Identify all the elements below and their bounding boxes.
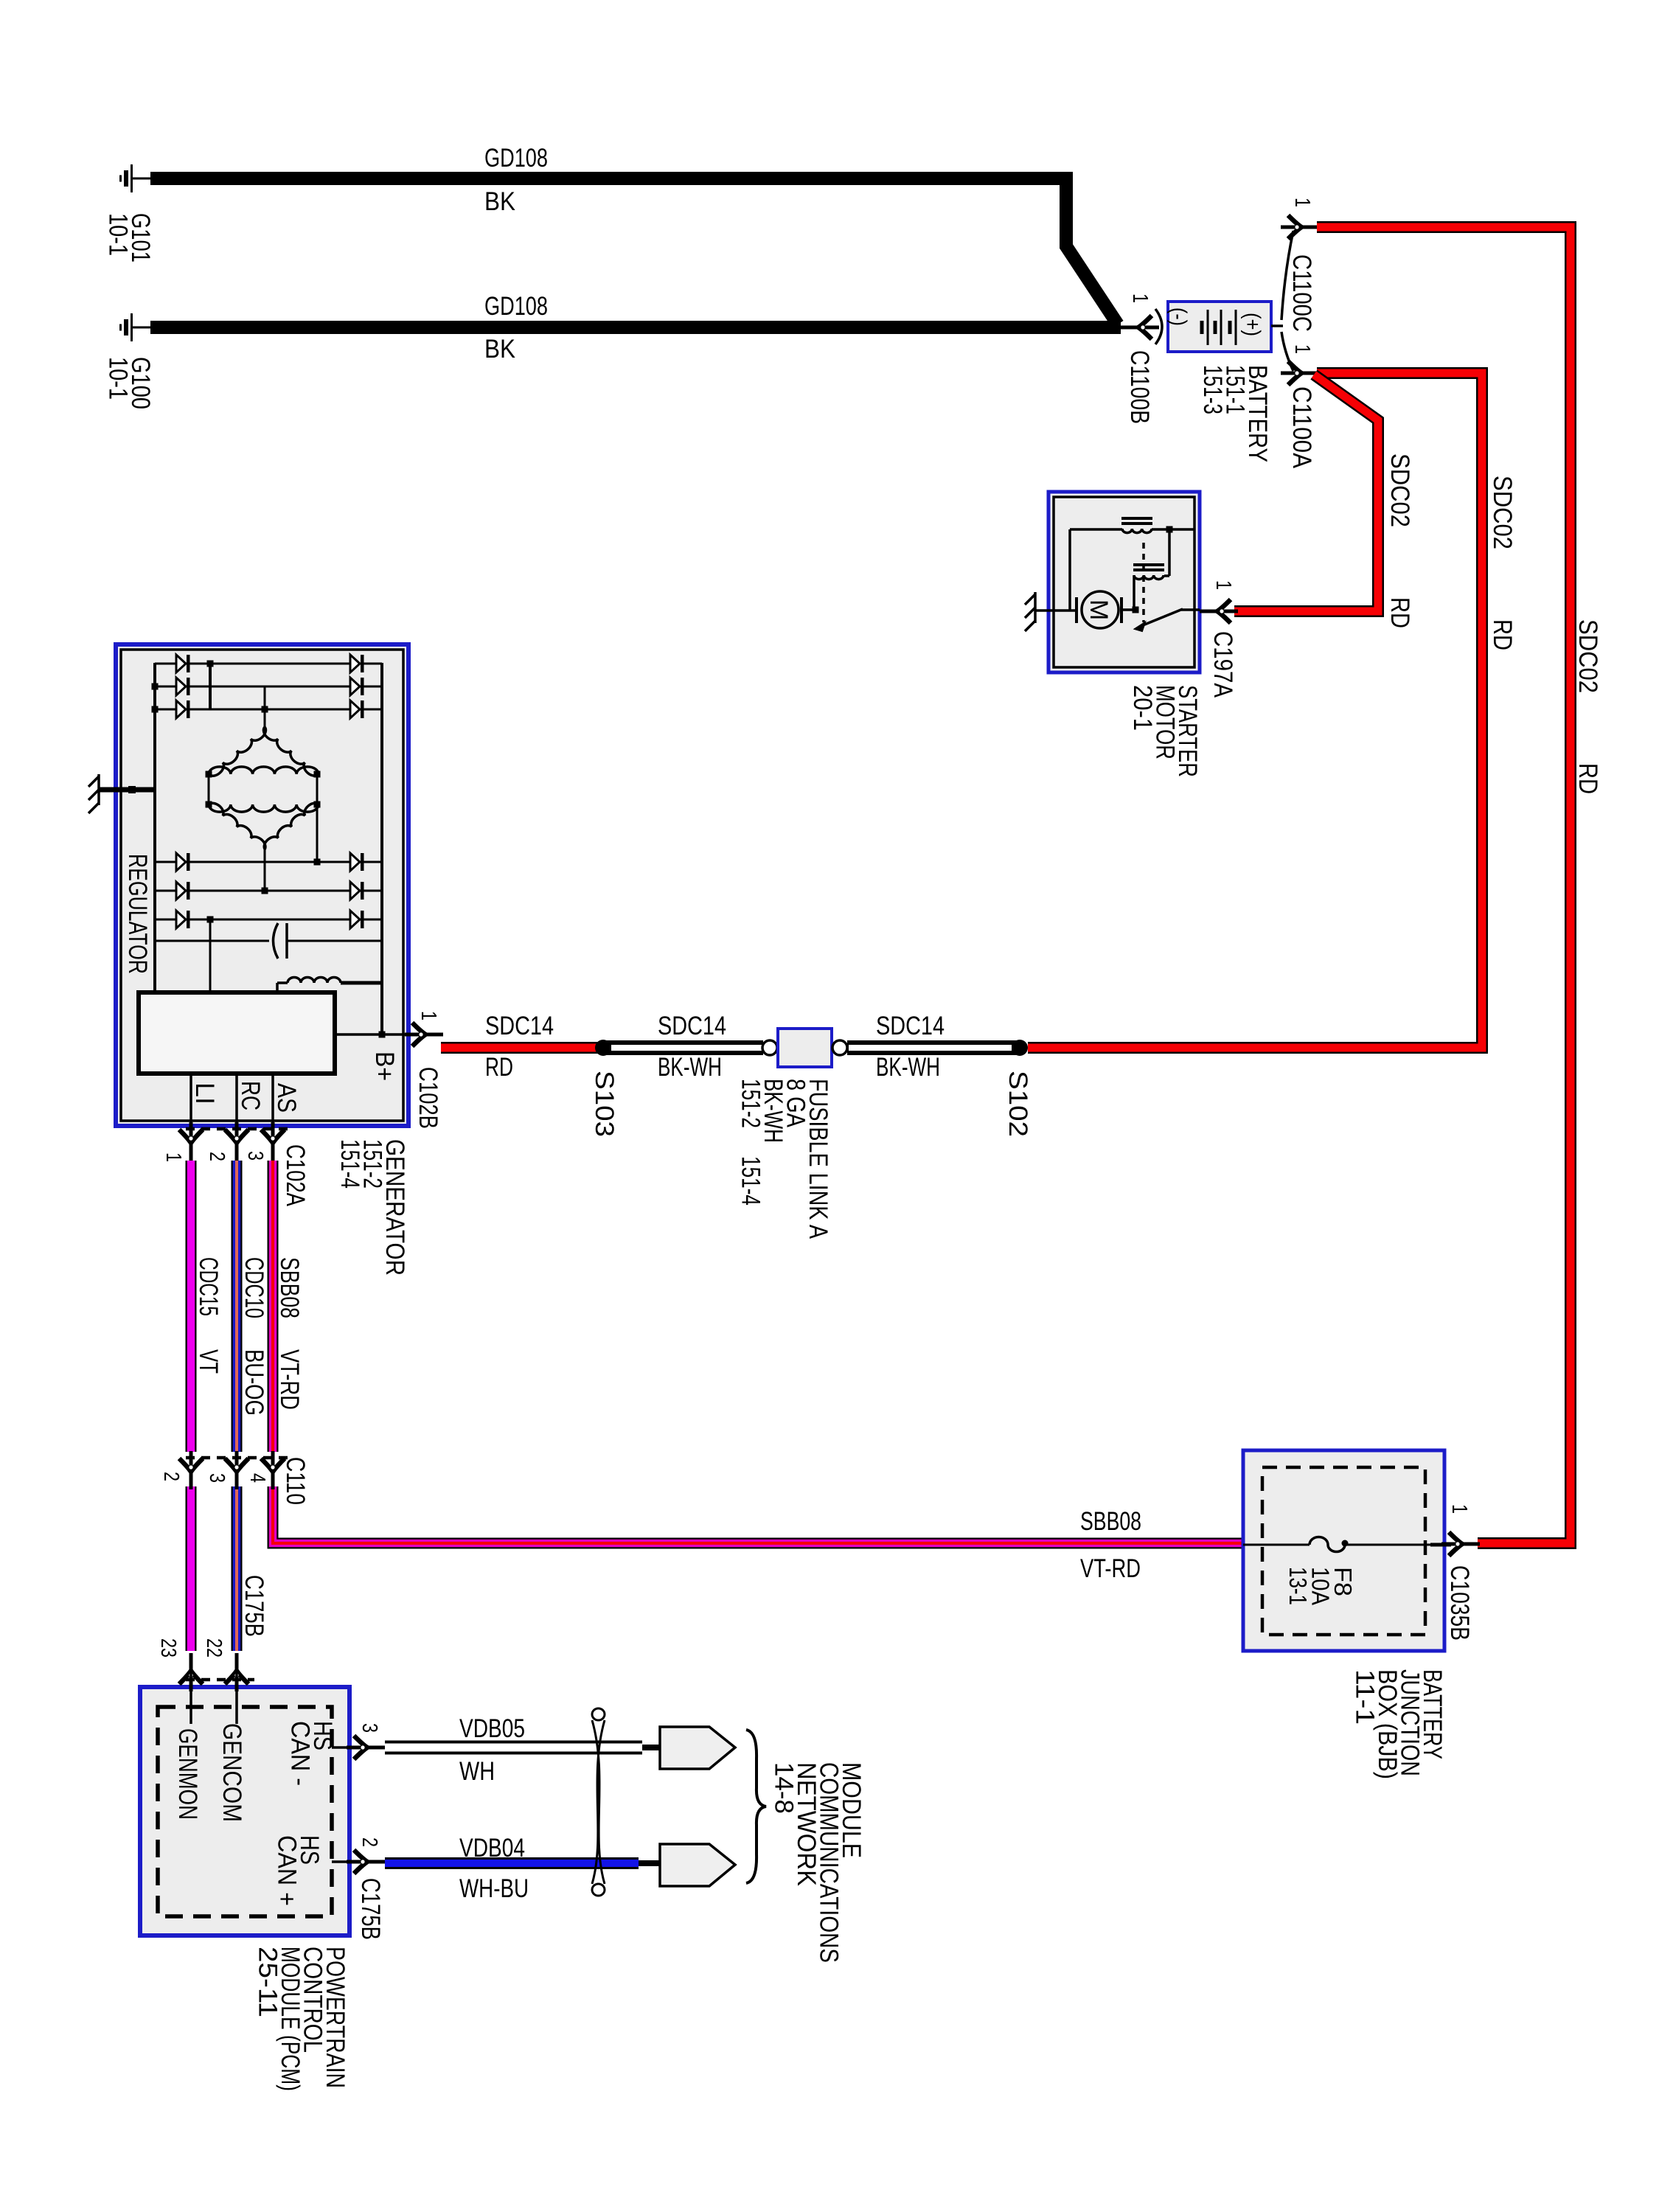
starter solenoid lower coil leads bbox=[1168, 529, 1171, 576]
regulator block bbox=[139, 992, 335, 1074]
svg-text:REGULATOR: REGULATOR bbox=[123, 854, 152, 974]
connector arrow PCM pin 3 bbox=[347, 1736, 385, 1759]
generator B+ output line bbox=[335, 1033, 414, 1036]
wire SBB08 VT-RD generator pin 3 to BJB bbox=[268, 1161, 279, 1452]
svg-text:CDC10: CDC10 bbox=[240, 1257, 268, 1318]
svg-text:GD108: GD108 bbox=[484, 292, 548, 321]
svg-text:RD: RD bbox=[1573, 763, 1602, 794]
svg-text:(-): (-) bbox=[1166, 307, 1191, 326]
svg-text:M: M bbox=[1085, 599, 1113, 620]
svg-text:C110: C110 bbox=[281, 1457, 310, 1505]
svg-text:GD108: GD108 bbox=[484, 144, 548, 173]
svg-text:1: 1 bbox=[1290, 198, 1314, 207]
generator box bbox=[116, 644, 408, 1126]
battery B box bbox=[1168, 302, 1271, 352]
svg-text:2: 2 bbox=[159, 1472, 183, 1481]
stator delta winding upper bbox=[263, 727, 318, 776]
svg-text:CDC15: CDC15 bbox=[194, 1257, 223, 1316]
rectifier diode rows bottom-right bbox=[350, 853, 364, 871]
svg-text:BK-WH: BK-WH bbox=[876, 1053, 940, 1082]
svg-text:S102: S102 bbox=[1004, 1071, 1032, 1137]
svg-text:VT-RD: VT-RD bbox=[275, 1349, 304, 1410]
svg-text:3: 3 bbox=[243, 1151, 267, 1161]
battery junction box BJB bbox=[1243, 1450, 1444, 1651]
connector arrow C102B bbox=[405, 1023, 443, 1046]
svg-text:C175B: C175B bbox=[240, 1575, 268, 1637]
starter motor armature circle M bbox=[1082, 591, 1119, 628]
rectifier diode rows top-left bbox=[155, 663, 382, 665]
svg-text:C197A: C197A bbox=[1208, 631, 1237, 698]
BJB inner dashed box bbox=[1262, 1467, 1425, 1635]
starter motor brushes bbox=[1075, 597, 1078, 623]
svg-text:C1100A: C1100A bbox=[1287, 386, 1316, 469]
svg-text:(+): (+) bbox=[1240, 313, 1265, 336]
svg-text:C1100C: C1100C bbox=[1287, 254, 1316, 332]
junction dots top diode rows bbox=[207, 661, 214, 667]
PCM HS CAN- pin line bbox=[332, 1746, 385, 1749]
svg-text:1: 1 bbox=[1128, 293, 1152, 303]
svg-text:25-11: 25-11 bbox=[254, 1947, 282, 2017]
stator winding connection stubs bbox=[264, 686, 266, 727]
rectifier diode rows bottom-left bbox=[155, 861, 382, 863]
wire VDB05 WH PCM to network bbox=[385, 1741, 642, 1755]
rectifier diode rows top-right bbox=[350, 655, 364, 672]
svg-text:C1035B: C1035B bbox=[1445, 1565, 1474, 1641]
starter solenoid upper coil leads bbox=[1070, 528, 1122, 531]
svg-text:CAN +: CAN + bbox=[273, 1835, 302, 1906]
svg-text:AS: AS bbox=[272, 1083, 301, 1113]
svg-text:151-3: 151-3 bbox=[1198, 365, 1227, 414]
network terminal pentagon upper bbox=[660, 1727, 735, 1769]
svg-text:14-8: 14-8 bbox=[770, 1762, 799, 1814]
regulator capacitor row bbox=[155, 940, 269, 942]
svg-text:RC: RC bbox=[236, 1081, 265, 1110]
starter solenoid lower coil bbox=[1133, 563, 1164, 566]
wire SDC02 RD battery to BJB (long right) bbox=[1317, 227, 1571, 1543]
connector arrow C1100A bbox=[1281, 361, 1319, 385]
connector C175B dashed line bbox=[186, 1678, 254, 1682]
connector arrow C1100B bbox=[1121, 316, 1159, 339]
svg-text:BU-OG: BU-OG bbox=[240, 1349, 268, 1416]
ground G101 bbox=[121, 164, 151, 192]
starter motor feed line and junction bbox=[1121, 608, 1135, 611]
svg-text:3: 3 bbox=[358, 1723, 381, 1733]
wire SDC14 RD generator to S103 bbox=[441, 1042, 603, 1054]
wire ground into generator bbox=[99, 787, 156, 793]
svg-text:11-1: 11-1 bbox=[1351, 1669, 1380, 1725]
ground G100 bbox=[121, 313, 151, 341]
svg-text:SDC14: SDC14 bbox=[876, 1012, 945, 1040]
svg-text:SDC14: SDC14 bbox=[658, 1012, 726, 1040]
svg-text:BK: BK bbox=[484, 187, 515, 216]
stator delta winding lower bbox=[209, 804, 319, 812]
battery cell plates bbox=[1202, 310, 1236, 345]
generator pin wires LI RC AS bbox=[189, 1074, 192, 1156]
svg-text:RD: RD bbox=[1385, 597, 1414, 628]
svg-text:1: 1 bbox=[1447, 1504, 1471, 1514]
wire SDC14 BK-WH S103 to fusible link bbox=[603, 1040, 763, 1055]
svg-text:BK-WH: BK-WH bbox=[658, 1053, 722, 1082]
svg-text:2: 2 bbox=[205, 1152, 229, 1161]
fuse F8 element bbox=[1243, 1544, 1310, 1546]
svg-text:1: 1 bbox=[417, 1011, 440, 1020]
svg-text:SDC02: SDC02 bbox=[1488, 476, 1517, 549]
connector arrows C175B bbox=[179, 1653, 203, 1691]
PCM inner dashed box bbox=[158, 1707, 332, 1916]
svg-text:VDB05: VDB05 bbox=[459, 1714, 525, 1743]
svg-text:C102A: C102A bbox=[281, 1144, 310, 1207]
svg-text:WH-BU: WH-BU bbox=[459, 1874, 529, 1903]
svg-text:GENMON: GENMON bbox=[173, 1728, 202, 1820]
svg-text:LI: LI bbox=[190, 1082, 219, 1105]
connector C102A dashed line bbox=[186, 1127, 288, 1131]
wire battery positive to C1100C and C1100A split bbox=[1271, 231, 1293, 371]
regulator field coil bbox=[288, 977, 341, 983]
starter motor ground (chassis) bbox=[1025, 592, 1035, 631]
svg-text:3: 3 bbox=[205, 1473, 229, 1483]
svg-text:C175B: C175B bbox=[356, 1878, 385, 1940]
svg-text:13-1: 13-1 bbox=[1284, 1567, 1312, 1605]
svg-text:C1100B: C1100B bbox=[1125, 350, 1154, 424]
svg-text:23: 23 bbox=[156, 1638, 180, 1658]
svg-text:SDC14: SDC14 bbox=[485, 1012, 554, 1040]
connector arrows C110 bbox=[179, 1451, 203, 1489]
svg-text:RD: RD bbox=[485, 1053, 513, 1082]
svg-text:4: 4 bbox=[246, 1473, 269, 1483]
wire ground to starter motor bbox=[1035, 609, 1077, 612]
connector arrow C197A bbox=[1200, 599, 1238, 623]
svg-text:VT-RD: VT-RD bbox=[1080, 1554, 1141, 1583]
generator left bus bbox=[153, 663, 156, 992]
svg-text:C102B: C102B bbox=[414, 1067, 442, 1129]
connector arrow C1035B bbox=[1441, 1532, 1480, 1556]
svg-text:1: 1 bbox=[1211, 580, 1235, 590]
connector arrow C1100C bbox=[1281, 215, 1319, 239]
wire CDC15 VT generator pin 1 to PCM bbox=[186, 1161, 197, 1452]
svg-text:SBB08: SBB08 bbox=[275, 1257, 304, 1318]
junction dots bottom diode rows bbox=[314, 859, 321, 866]
svg-text:10-1: 10-1 bbox=[104, 357, 133, 400]
starter solenoid upper coil bbox=[1121, 517, 1152, 520]
svg-text:VT: VT bbox=[194, 1349, 223, 1374]
svg-text:S103: S103 bbox=[590, 1071, 619, 1137]
inline connector curve at C1100B bbox=[1155, 309, 1162, 344]
brace for module communications network bbox=[746, 1730, 766, 1883]
wire SDC14 BK-WH fusible link to S102 bbox=[847, 1040, 1020, 1055]
generator ground (chassis) bbox=[88, 774, 99, 813]
svg-text:SBB08: SBB08 bbox=[1080, 1507, 1141, 1536]
wire to connector C1100B bbox=[1121, 326, 1151, 329]
svg-text:SDC02: SDC02 bbox=[1385, 453, 1414, 527]
wire SDC02 RD battery to starter motor bbox=[1234, 375, 1378, 611]
svg-text:B+: B+ bbox=[370, 1051, 399, 1081]
svg-text:151-2: 151-2 bbox=[737, 1079, 765, 1128]
connector C110 dashed line bbox=[186, 1456, 288, 1460]
twisted pair symbol bbox=[592, 1708, 605, 1896]
svg-text:WH: WH bbox=[459, 1757, 495, 1786]
starter solenoid switch blade bbox=[1143, 609, 1183, 625]
svg-text:22: 22 bbox=[202, 1638, 226, 1658]
wire CDC10 BU-OG generator pin 2 to PCM bbox=[232, 1161, 243, 1452]
svg-text:CAN -: CAN - bbox=[286, 1721, 315, 1786]
svg-text:BK: BK bbox=[484, 335, 515, 364]
splice S103 bbox=[595, 1040, 611, 1056]
svg-text:1: 1 bbox=[161, 1152, 185, 1162]
svg-text:151-4: 151-4 bbox=[335, 1139, 364, 1189]
svg-text:SDC02: SDC02 bbox=[1573, 619, 1602, 693]
connector arrow PCM pin 2 bbox=[347, 1850, 385, 1874]
starter motor box bbox=[1048, 492, 1200, 672]
starter solenoid dashed actuator line bbox=[1142, 543, 1145, 622]
svg-text:RD: RD bbox=[1488, 619, 1517, 650]
svg-text:2: 2 bbox=[358, 1837, 381, 1847]
svg-text:1: 1 bbox=[1290, 344, 1314, 354]
svg-text:VDB04: VDB04 bbox=[459, 1834, 525, 1863]
svg-text:151-4: 151-4 bbox=[737, 1156, 765, 1206]
generator right bus bbox=[380, 663, 383, 1035]
connector arrows C102A bbox=[179, 1122, 203, 1161]
svg-text:GENCOM: GENCOM bbox=[218, 1723, 246, 1822]
PCM HS CAN+ pin line bbox=[332, 1860, 385, 1863]
junction dot on generator ground wire bbox=[128, 786, 136, 793]
fusible link A bbox=[762, 1040, 777, 1055]
PCM pin stubs from C175B bbox=[189, 1672, 192, 1724]
powertrain control module PCM box bbox=[140, 1687, 349, 1935]
svg-text:20-1: 20-1 bbox=[1128, 685, 1157, 731]
generator inner bus 2 bbox=[209, 663, 212, 710]
wire SDC02 RD battery to S102 (middle vertical) bbox=[1028, 373, 1482, 1048]
splice S102 bbox=[1012, 1040, 1028, 1056]
wire GD108 ground G101 to battery (thick black, top) bbox=[150, 178, 1118, 324]
network terminal pentagon lower bbox=[660, 1844, 735, 1886]
wire VDB04 WH-BU PCM to network bbox=[385, 1857, 639, 1869]
wire GD108 ground G100 to battery (thick black, lower) bbox=[150, 321, 1121, 334]
svg-text:10-1: 10-1 bbox=[104, 213, 133, 256]
